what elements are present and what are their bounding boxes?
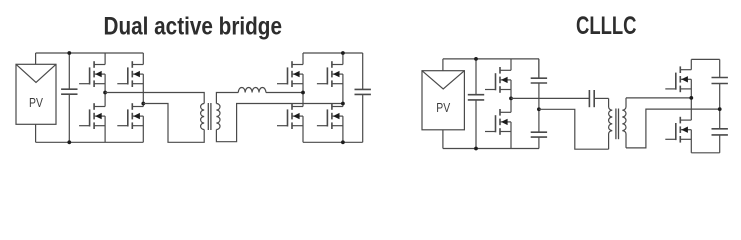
- wire top rail output: [691, 58, 719, 60]
- svg-text:PV: PV: [436, 101, 450, 115]
- capacitor C4 (split top): [531, 59, 547, 109]
- transformer T1 secondary winding: [216, 104, 220, 130]
- wire output leg upper: [690, 59, 692, 69]
- wire leg B lower: [142, 116, 144, 142]
- wire split-cap leg upper: [538, 59, 540, 78]
- node split-cap midpoint: [537, 107, 541, 111]
- wire leg D middle: [342, 74, 344, 106]
- wire input leg upper: [510, 59, 512, 70]
- capacitor C6 (resonant): [588, 90, 590, 107]
- wire T1 secondary bottom to bridge2 leg B: [216, 104, 343, 142]
- node leg B midpoint: [141, 102, 145, 106]
- solar panel PV1: [16, 53, 56, 142]
- node output leg midpoint: [689, 96, 693, 100]
- wire leg A upper: [104, 53, 106, 65]
- transistor Q10: [485, 109, 511, 135]
- transistor Q1: [79, 61, 105, 87]
- wire leg C upper: [302, 53, 304, 65]
- wire T2 secondary top to output leg: [626, 97, 691, 99]
- svg-text:PV: PV: [29, 96, 43, 110]
- transistor Q4: [117, 103, 143, 129]
- node C1 bottom: [67, 140, 71, 144]
- capacitor C7 (output top): [712, 59, 728, 109]
- transistor Q11: [665, 66, 691, 92]
- wire leg A middle: [104, 74, 106, 106]
- transformer T2 secondary winding: [622, 98, 626, 148]
- wire split-cap mid to T2 primary bottom: [539, 109, 609, 149]
- wire leg A to transformer primary top: [105, 93, 204, 104]
- wire L1 to bridge2 leg A: [266, 92, 303, 94]
- node leg A midpoint: [103, 91, 107, 95]
- transformer T2 core: [615, 109, 617, 140]
- node input leg midpoint: [509, 97, 513, 101]
- capacitor C8 (output bottom): [712, 109, 728, 153]
- transistor Q8: [317, 103, 343, 129]
- wire leg B middle: [142, 74, 144, 106]
- node leg D midpoint: [341, 102, 345, 106]
- wire leg D lower: [342, 116, 344, 142]
- wire bottom rail input: [443, 148, 539, 150]
- node output cap midpoint: [718, 107, 722, 111]
- solar panel PV2: [422, 59, 464, 149]
- wire leg B upper: [142, 53, 144, 65]
- capacitor C2 (output): [355, 53, 371, 142]
- transformer T1 primary winding: [201, 104, 205, 130]
- wire bottom rail bridge1: [36, 141, 144, 143]
- wire input mid to resonant cap: [511, 97, 589, 99]
- inductor L1: [238, 88, 266, 93]
- wire leg B to transformer primary bottom: [143, 104, 204, 143]
- wire bottom rail output: [691, 152, 719, 154]
- wire resonant cap to T2 primary top: [594, 97, 608, 99]
- wire top rail bridge2: [303, 52, 363, 54]
- transistor Q9: [485, 67, 511, 93]
- wire T2 secondary bottom to output cap mid: [626, 109, 720, 148]
- transformer T1 core: [207, 103, 209, 130]
- wire leg C middle: [302, 74, 304, 106]
- wire input leg middle: [510, 80, 512, 112]
- wire output leg middle: [690, 79, 692, 120]
- node leg C midpoint: [301, 91, 305, 95]
- node C3 bottom: [474, 147, 478, 151]
- wire leg C lower: [302, 116, 304, 142]
- wire leg A lower: [104, 116, 106, 142]
- wire input leg lower: [510, 122, 512, 149]
- svg-text:Dual active bridge: Dual active bridge: [104, 12, 283, 40]
- capacitor C1 (DC link): [61, 53, 77, 142]
- svg-text:CLLLC: CLLLC: [576, 12, 637, 40]
- transistor Q12: [665, 117, 691, 143]
- wire leg D upper: [342, 53, 344, 65]
- transistor Q3: [79, 103, 105, 129]
- wire top rail bridge1: [36, 52, 144, 54]
- transistor Q5: [277, 61, 303, 87]
- transformer T2 primary winding: [609, 98, 613, 149]
- capacitor C5 (split bottom): [531, 109, 547, 148]
- wire top rail input: [443, 58, 539, 60]
- wire T1 secondary top lead: [216, 93, 238, 104]
- node C1 top: [67, 51, 71, 55]
- node leg D top rail: [341, 51, 345, 55]
- node C3 top: [474, 57, 478, 61]
- node leg D bottom rail: [341, 140, 345, 144]
- wire output leg lower: [690, 130, 692, 153]
- wire bottom rail bridge2: [303, 141, 363, 143]
- transistor Q7: [277, 103, 303, 129]
- transistor Q2: [117, 61, 143, 87]
- transistor Q6: [317, 61, 343, 87]
- capacitor C3 (DC link): [468, 59, 484, 149]
